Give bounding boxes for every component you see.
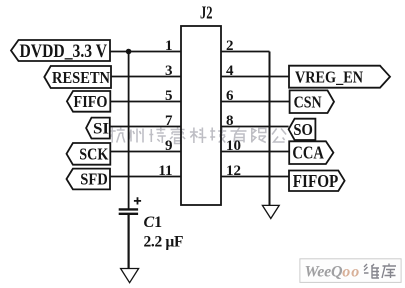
- connector J2 body: [181, 26, 221, 205]
- wire FIFO to pin 5: [110, 101, 181, 103]
- wire pin 6 to CSN: [221, 101, 290, 103]
- wire SCK to pin 9: [110, 151, 181, 153]
- svg-text:SFD: SFD: [80, 170, 108, 189]
- 睿: [170, 127, 185, 144]
- svg-text:CCA: CCA: [292, 143, 324, 163]
- wire pin 8 to SO: [221, 126, 289, 128]
- 杭: [109, 128, 125, 143]
- svg-text:SI: SI: [93, 120, 109, 137]
- net label FIFO: [67, 91, 110, 112]
- 限: [252, 128, 266, 143]
- wire left power bus from pin1 down to C1: [128, 52, 130, 210]
- svg-text:1: 1: [165, 38, 173, 54]
- net label SFD: [67, 169, 111, 190]
- wire pin 2 to right ground bus: [221, 51, 270, 53]
- wire RESETN to pin 3: [111, 76, 181, 78]
- wire DVDD_3.3 V to pin 1: [110, 51, 181, 53]
- capacitor C1 plates: [119, 209, 138, 213]
- net label CCA: [289, 141, 333, 164]
- net label CSN: [290, 90, 334, 113]
- ground (left, below C1): [121, 269, 139, 283]
- wire pin 12 to FIFOP: [221, 176, 289, 178]
- net label SCK: [67, 143, 111, 165]
- svg-text:J2: J2: [200, 3, 213, 23]
- net label SO: [289, 119, 316, 140]
- 州: [129, 129, 143, 143]
- svg-text:DVDD_3.3 V: DVDD_3.3 V: [20, 41, 108, 62]
- svg-text:7: 7: [165, 113, 173, 129]
- svg-text:9: 9: [165, 138, 173, 154]
- wire SFD to pin 11: [110, 176, 181, 178]
- svg-text:2.2 µF: 2.2 µF: [144, 234, 184, 251]
- svg-text:4: 4: [226, 63, 234, 79]
- svg-text:FIFO: FIFO: [74, 92, 108, 111]
- node junction dot pin1/bus: [126, 49, 132, 55]
- svg-text:RESETN: RESETN: [52, 68, 111, 87]
- logo 维库 text: [364, 264, 396, 279]
- watermark 杭州将睿科技有限公司: [109, 127, 307, 144]
- 技: [210, 128, 226, 143]
- svg-text:11: 11: [158, 163, 172, 179]
- svg-text:2: 2: [226, 38, 234, 54]
- svg-text:5: 5: [165, 88, 173, 104]
- 公: [272, 129, 286, 143]
- svg-text:SO: SO: [293, 120, 313, 139]
- svg-text:CSN: CSN: [294, 92, 323, 111]
- svg-text:FIFOP: FIFOP: [293, 171, 339, 191]
- svg-text:WeeQoo: WeeQoo: [305, 264, 360, 281]
- logo WeeQoo box: [300, 259, 401, 283]
- wire pin 10 to CCA: [221, 151, 289, 153]
- ground (right, below bus): [262, 205, 279, 218]
- svg-text:6: 6: [226, 88, 234, 104]
- wire pin 4 to VREG_EN: [221, 76, 289, 78]
- svg-text:SCK: SCK: [79, 144, 108, 163]
- net label SI: [86, 118, 110, 139]
- capacitor C1 polarity plus: [134, 197, 141, 204]
- net label FIFOP: [289, 171, 345, 192]
- svg-text:12: 12: [226, 163, 241, 179]
- 司: [293, 129, 306, 142]
- svg-text:VREG_EN: VREG_EN: [295, 67, 363, 86]
- 将: [149, 128, 166, 144]
- svg-text:10: 10: [226, 138, 241, 154]
- net label VREG_EN: [289, 66, 390, 88]
- 有: [231, 128, 247, 143]
- wire SI to pin 7: [110, 126, 181, 128]
- svg-text:8: 8: [226, 113, 234, 129]
- net label DVDD_3.3 V: [11, 40, 110, 62]
- wire C1 bottom lead to ground: [128, 214, 130, 269]
- 科: [190, 128, 207, 144]
- net label RESETN: [44, 66, 111, 88]
- wire right ground bus: [269, 52, 271, 206]
- svg-text:3: 3: [165, 63, 173, 79]
- svg-text:C1: C1: [144, 214, 163, 231]
